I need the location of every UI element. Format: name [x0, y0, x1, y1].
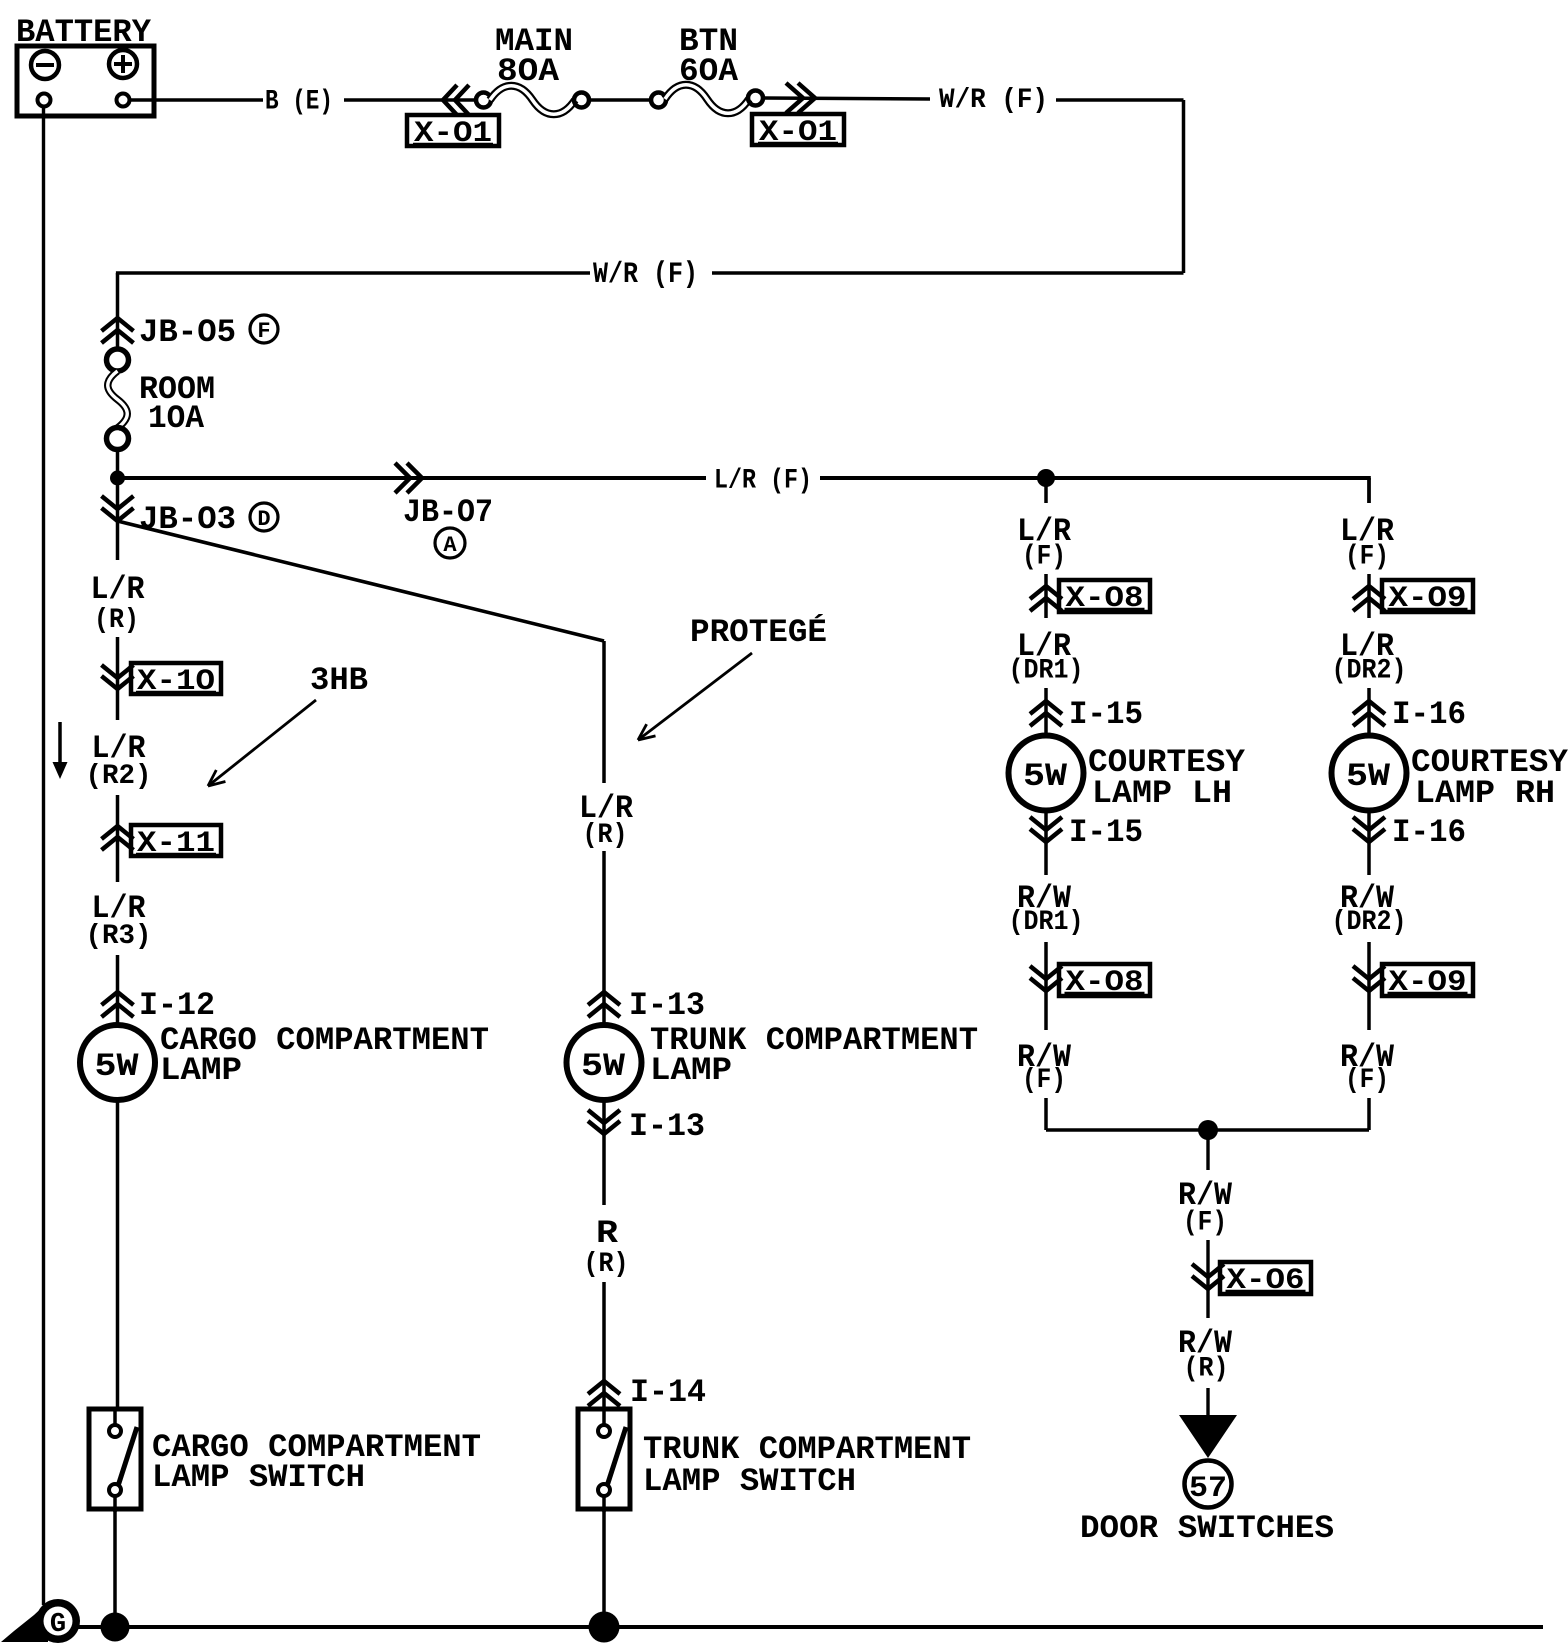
svg-text:X-O9: X-O9 [1389, 966, 1467, 1000]
svg-text:JB-O5: JB-O5 [139, 314, 236, 351]
svg-text:3HB: 3HB [310, 662, 368, 699]
svg-text:LAMP LH: LAMP LH [1092, 775, 1232, 812]
svg-text:LAMP SWITCH: LAMP SWITCH [643, 1463, 856, 1500]
svg-text:I-13: I-13 [629, 1108, 705, 1145]
svg-text:(DR1): (DR1) [1009, 907, 1084, 938]
svg-text:X-1O: X-1O [137, 665, 215, 699]
svg-text:6OA: 6OA [679, 53, 739, 90]
svg-text:F: F [257, 319, 270, 344]
svg-text:(R2): (R2) [86, 761, 152, 792]
svg-text:5W: 5W [581, 1048, 626, 1085]
svg-text:D: D [257, 507, 270, 532]
svg-text:(R): (R) [1184, 1354, 1229, 1385]
svg-text:B (E): B (E) [265, 87, 333, 118]
svg-text:A: A [443, 533, 457, 558]
svg-text:I-12: I-12 [139, 987, 215, 1024]
svg-text:X-O8: X-O8 [1066, 582, 1144, 616]
svg-text:W/R (F): W/R (F) [593, 258, 698, 292]
svg-text:X-O6: X-O6 [1227, 1264, 1305, 1298]
svg-text:LAMP: LAMP [160, 1052, 242, 1089]
svg-text:8OA: 8OA [497, 53, 560, 90]
svg-text:X-O1: X-O1 [414, 117, 492, 151]
svg-text:(R): (R) [94, 605, 139, 636]
svg-text:5W: 5W [95, 1048, 140, 1085]
svg-text:I-15: I-15 [1069, 814, 1143, 851]
svg-text:(F): (F) [1345, 1065, 1389, 1096]
svg-text:(DR1): (DR1) [1009, 656, 1084, 687]
svg-text:(R): (R) [583, 820, 628, 851]
svg-text:I-16: I-16 [1392, 696, 1466, 733]
svg-text:JB-O7: JB-O7 [403, 494, 493, 531]
svg-text:L/R (F): L/R (F) [714, 466, 812, 497]
svg-text:X-O8: X-O8 [1066, 966, 1144, 1000]
svg-text:DOOR SWITCHES: DOOR SWITCHES [1080, 1510, 1334, 1547]
svg-text:JB-O3: JB-O3 [139, 501, 236, 538]
svg-text:X-O9: X-O9 [1389, 582, 1467, 616]
svg-text:57: 57 [1189, 1472, 1227, 1506]
svg-text:(F): (F) [1022, 1065, 1066, 1096]
svg-text:5W: 5W [1023, 758, 1068, 795]
svg-text:5W: 5W [1346, 758, 1391, 795]
svg-text:LAMP SWITCH: LAMP SWITCH [152, 1459, 365, 1496]
svg-text:LAMP: LAMP [650, 1052, 732, 1089]
svg-text:(DR2): (DR2) [1332, 907, 1407, 938]
svg-text:I-14: I-14 [630, 1374, 706, 1411]
svg-text:(F): (F) [1022, 542, 1066, 573]
svg-text:R: R [596, 1215, 619, 1252]
svg-text:(R3): (R3) [86, 921, 152, 952]
svg-text:X-11: X-11 [137, 827, 215, 861]
svg-text:(R): (R) [584, 1249, 629, 1280]
svg-text:1OA: 1OA [148, 400, 205, 437]
svg-text:(F): (F) [1345, 542, 1389, 573]
svg-text:X-O1: X-O1 [759, 116, 837, 150]
svg-text:PROTEGÉ: PROTEGÉ [690, 614, 827, 651]
svg-text:G: G [50, 1610, 66, 1640]
svg-text:W/R (F): W/R (F) [939, 85, 1048, 116]
svg-text:(DR2): (DR2) [1332, 656, 1407, 687]
svg-text:L/R: L/R [91, 571, 146, 608]
svg-text:I-15: I-15 [1069, 696, 1143, 733]
svg-text:(F): (F) [1183, 1208, 1227, 1239]
svg-text:I-13: I-13 [629, 987, 705, 1024]
svg-text:I-16: I-16 [1392, 814, 1466, 851]
svg-text:LAMP RH: LAMP RH [1415, 775, 1555, 812]
